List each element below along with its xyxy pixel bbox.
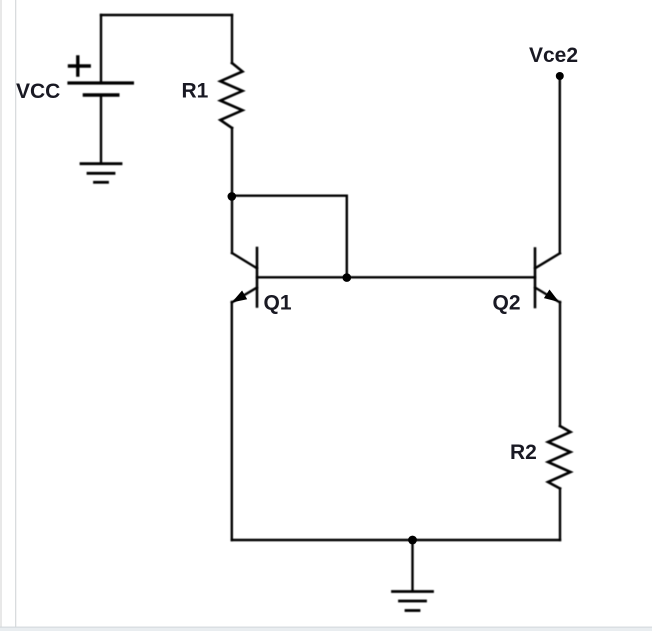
wire top rail VCC to R1 bbox=[101, 14, 232, 16]
wire ground stub bbox=[411, 540, 413, 591]
svg-text:R2: R2 bbox=[510, 441, 537, 464]
transistor Q1 base bar bbox=[256, 248, 259, 307]
svg-text:Q2: Q2 bbox=[493, 292, 521, 315]
ground G1 bbox=[81, 162, 121, 165]
transistor Q2 emitter angled bbox=[535, 288, 560, 303]
transistor Q2 collector angled bbox=[535, 253, 560, 268]
transistor Q1 emitter arrow bbox=[233, 291, 246, 301]
transistor Q1 collector angled bbox=[232, 253, 257, 268]
wire R1 top lead bbox=[231, 15, 233, 63]
transistor Q1 emitter angled bbox=[232, 288, 257, 303]
transistor Q2 base bar bbox=[534, 249, 537, 308]
battery plus sign bbox=[70, 57, 90, 75]
wire loop right vertical bbox=[346, 196, 348, 278]
node terminal dot Vce2 bbox=[556, 72, 564, 80]
node junction dot base rail bbox=[343, 273, 352, 282]
node junction dot under R1 bbox=[228, 192, 237, 201]
transistor Q2 emitter arrow bbox=[545, 290, 558, 301]
resistor R2 bbox=[548, 426, 571, 489]
svg-text:R1: R1 bbox=[182, 79, 209, 102]
svg-text:VCC: VCC bbox=[16, 80, 60, 103]
wire R2 bottom lead bbox=[559, 489, 561, 541]
svg-text:Q1: Q1 bbox=[264, 292, 292, 315]
wire battery bottom lead bbox=[100, 96, 102, 163]
wire Q2 emitter vertical bbox=[559, 302, 561, 426]
wire bottom rail bbox=[232, 539, 560, 541]
wire R1 bottom lead to node bbox=[231, 128, 233, 196]
battery V1 VCC plates bbox=[69, 81, 132, 84]
wire Q1 collector vertical bbox=[231, 196, 233, 253]
wire Vce2 vertical bbox=[559, 76, 561, 253]
node junction dot bottom rail bbox=[408, 536, 417, 545]
svg-text:Vce2: Vce2 bbox=[529, 44, 578, 67]
wire base rail Q1 to Q2 bbox=[257, 276, 535, 278]
wire battery top lead bbox=[100, 15, 102, 82]
wire node to loop top bbox=[232, 194, 347, 196]
ground G2 bbox=[393, 590, 433, 593]
resistor R1 bbox=[220, 63, 242, 128]
wire Q1 emitter vertical bbox=[231, 302, 233, 540]
